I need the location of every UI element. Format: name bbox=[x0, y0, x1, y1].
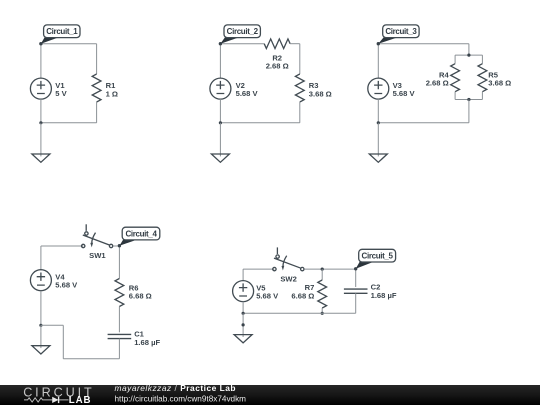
ground bbox=[211, 154, 229, 162]
wire bbox=[243, 268, 274, 270]
svg-text:3.68 Ω: 3.68 Ω bbox=[309, 89, 332, 98]
node Circuit_4 bbox=[118, 227, 160, 247]
junction bbox=[242, 312, 245, 315]
ground bbox=[32, 154, 50, 162]
wire bbox=[242, 302, 244, 314]
wire bbox=[454, 55, 456, 64]
voltage source V1 bbox=[30, 78, 51, 99]
wire bbox=[118, 339, 120, 359]
wire bbox=[468, 100, 470, 123]
wire bbox=[481, 92, 483, 100]
wire bbox=[219, 44, 221, 78]
wire bbox=[40, 246, 42, 270]
voltage source V5 bbox=[233, 281, 254, 302]
svg-text:http://circuitlab.com/cwn9t8x7: http://circuitlab.com/cwn9t8x74vdkm bbox=[115, 394, 247, 403]
wire bbox=[40, 99, 42, 123]
resistor R4 bbox=[451, 64, 460, 92]
svg-text:1.68 µF: 1.68 µF bbox=[371, 291, 397, 300]
wire bbox=[378, 122, 469, 124]
junction bbox=[467, 98, 470, 101]
wire bbox=[41, 245, 83, 247]
wire bbox=[243, 312, 356, 314]
CircuitLab logo bbox=[23, 385, 94, 405]
svg-text:Circuit_5: Circuit_5 bbox=[362, 252, 394, 261]
node Circuit_2 bbox=[219, 25, 261, 46]
wire bbox=[481, 55, 483, 64]
wire bbox=[63, 358, 119, 360]
wire bbox=[299, 44, 301, 74]
junction bbox=[377, 121, 380, 124]
wire bbox=[378, 43, 469, 45]
wire bbox=[377, 99, 379, 123]
capacitor C2 bbox=[344, 289, 368, 293]
svg-text:2.68 Ω: 2.68 Ω bbox=[426, 78, 449, 87]
ground bbox=[32, 346, 50, 354]
wire bbox=[40, 123, 42, 154]
resistor R2 bbox=[264, 39, 290, 49]
wire bbox=[40, 325, 42, 345]
resistor R7 bbox=[318, 280, 327, 308]
svg-text:Circuit_1: Circuit_1 bbox=[46, 27, 78, 36]
node Circuit_1 bbox=[39, 25, 80, 46]
wire bbox=[40, 44, 42, 78]
resistor R1 bbox=[92, 74, 101, 102]
wire bbox=[220, 43, 264, 45]
svg-text:5.68 V: 5.68 V bbox=[256, 292, 279, 301]
junction bbox=[219, 121, 222, 124]
wire bbox=[321, 269, 323, 280]
wire bbox=[118, 246, 120, 279]
resistor R3 bbox=[295, 74, 304, 102]
junction bbox=[321, 268, 324, 271]
junction bbox=[39, 324, 42, 327]
wire bbox=[219, 99, 221, 123]
voltage source V4 bbox=[30, 270, 51, 291]
wire bbox=[118, 307, 120, 333]
resistor R6 bbox=[115, 279, 124, 307]
resistor R5 bbox=[478, 64, 487, 92]
junction bbox=[242, 323, 245, 326]
wire bbox=[299, 102, 301, 123]
switch SW1 bbox=[82, 224, 113, 247]
wire bbox=[377, 123, 379, 154]
wire bbox=[40, 291, 42, 326]
svg-text:Circuit_2: Circuit_2 bbox=[227, 27, 259, 36]
node Circuit_3 bbox=[377, 25, 420, 46]
svg-text:Circuit_4: Circuit_4 bbox=[125, 230, 157, 239]
wire bbox=[321, 308, 323, 313]
wire bbox=[96, 102, 98, 123]
wire bbox=[242, 313, 244, 334]
footer bar bbox=[0, 385, 540, 405]
wire bbox=[304, 268, 356, 270]
svg-text:5 V: 5 V bbox=[55, 89, 67, 98]
switch SW2 bbox=[273, 247, 304, 270]
ground bbox=[234, 335, 252, 343]
wire bbox=[96, 44, 98, 74]
wire bbox=[219, 123, 221, 154]
svg-text:5.68 V: 5.68 V bbox=[236, 89, 259, 98]
wire bbox=[242, 269, 244, 281]
voltage source V2 bbox=[210, 78, 231, 99]
wire bbox=[355, 293, 357, 313]
wire bbox=[41, 122, 97, 124]
svg-text:6.68 Ω: 6.68 Ω bbox=[129, 292, 152, 301]
wire bbox=[113, 245, 119, 247]
junction bbox=[467, 54, 470, 57]
svg-text:LAB: LAB bbox=[69, 395, 92, 405]
svg-text:3.68 Ω: 3.68 Ω bbox=[488, 78, 511, 87]
wire bbox=[455, 54, 482, 56]
svg-text:SW2: SW2 bbox=[280, 274, 296, 283]
wire bbox=[41, 324, 63, 326]
svg-text:Circuit_3: Circuit_3 bbox=[385, 27, 417, 36]
capacitor C1 bbox=[108, 334, 132, 338]
svg-text:mayarelkzzaz / Practice Lab: mayarelkzzaz / Practice Lab bbox=[115, 383, 237, 393]
wire bbox=[220, 122, 299, 124]
wire bbox=[455, 99, 482, 101]
wire bbox=[62, 325, 64, 359]
svg-text:2.68 Ω: 2.68 Ω bbox=[266, 62, 289, 71]
ground bbox=[369, 154, 387, 162]
wire bbox=[454, 92, 456, 100]
wire bbox=[355, 269, 357, 287]
svg-text:1.68 µF: 1.68 µF bbox=[134, 338, 160, 347]
junction bbox=[39, 121, 42, 124]
svg-text:SW1: SW1 bbox=[89, 251, 106, 260]
wire bbox=[377, 44, 379, 78]
svg-text:5.68 V: 5.68 V bbox=[55, 281, 78, 290]
node Circuit_5 bbox=[354, 249, 396, 270]
junction bbox=[321, 312, 324, 315]
voltage source V3 bbox=[368, 78, 389, 99]
wire bbox=[41, 43, 97, 45]
svg-text:5.68 V: 5.68 V bbox=[393, 89, 416, 98]
wire bbox=[468, 44, 470, 55]
wire bbox=[290, 43, 300, 45]
svg-text:6.68 Ω: 6.68 Ω bbox=[291, 292, 314, 301]
svg-text:1 Ω: 1 Ω bbox=[106, 89, 118, 98]
